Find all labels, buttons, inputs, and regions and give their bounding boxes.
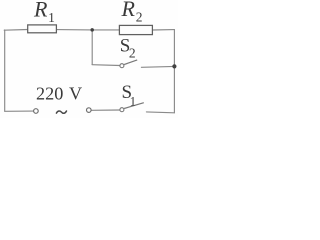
wire top-left segment	[4, 29, 28, 32]
label S2	[120, 35, 136, 60]
wire left rail	[4, 30, 6, 111]
svg-text:2: 2	[129, 46, 136, 61]
svg-text:R: R	[33, 0, 48, 22]
AC source terminal right	[87, 108, 92, 113]
svg-text:V: V	[69, 84, 82, 104]
svg-text:R: R	[121, 0, 136, 21]
switch S1	[120, 103, 144, 112]
AC tilde symbol	[56, 111, 66, 113]
wire right rail	[173, 30, 175, 113]
wire R1 to node	[56, 29, 92, 31]
resistor R1	[28, 25, 57, 33]
label S1	[122, 82, 136, 109]
switch S2	[120, 60, 137, 68]
svg-text:1: 1	[130, 95, 136, 109]
resistor R2	[119, 25, 152, 34]
node junction dot (S2 branch to right rail)	[172, 64, 176, 68]
wire S1 to bottom-right corner	[146, 111, 174, 114]
svg-text:2: 2	[136, 9, 143, 24]
AC source terminal left	[34, 109, 39, 114]
node junction dot (R1/R2/S2 tap)	[90, 28, 94, 32]
wire S2 to right rail	[141, 65, 174, 68]
svg-text:220: 220	[36, 84, 63, 104]
wire top-right segment	[152, 29, 174, 31]
wire bottom-left segment	[5, 110, 34, 112]
label 220 V	[36, 84, 82, 104]
label R2	[121, 0, 143, 24]
label R1	[33, 0, 55, 25]
wire S2 branch horizontal	[92, 64, 120, 67]
svg-text:1: 1	[48, 10, 55, 25]
wire S2 branch vertical	[91, 30, 93, 65]
wire source to S1	[91, 109, 119, 111]
wire node to R2	[92, 29, 119, 31]
